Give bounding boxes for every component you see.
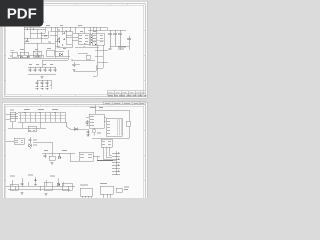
wire cap cluster top [37, 80, 51, 85]
wire feeds to J1 [6, 114, 11, 119]
resistor R5 [126, 121, 130, 126]
wire feeds to J3 [97, 156, 116, 161]
resistor R10 [63, 38, 65, 40]
IC U7 pins [15, 140, 23, 142]
wire vertical bus [54, 27, 56, 58]
connector J3 pads [117, 152, 119, 172]
wire net above U2 [84, 27, 96, 45]
wire rail mid [75, 46, 99, 48]
wire right mid net [72, 45, 108, 75]
title block frame [107, 91, 145, 97]
wire rail upper right [88, 29, 126, 31]
page 2 outer border frame [4, 105, 145, 199]
resistor R9 [63, 32, 65, 34]
wire bottom bus [6, 177, 76, 192]
resistor array rails [18, 113, 66, 123]
capacitor C7 [29, 67, 32, 72]
wire cap bank rail [28, 66, 56, 68]
title block dividers [114, 91, 140, 97]
wire stub [51, 153, 53, 156]
node dot [54, 112, 55, 113]
IC U13 pins [102, 141, 111, 144]
text above U11 [80, 184, 88, 186]
transistor Q1 leads [93, 128, 95, 136]
svg-text:PDF: PDF [7, 6, 37, 23]
diode D2 [27, 56, 29, 58]
relay K3 [46, 50, 54, 56]
wire cap bottoms [110, 36, 129, 50]
wire lower bus [8, 122, 46, 128]
resistor array RN1 verticals [20, 113, 65, 123]
wire stubs left of U5 [86, 117, 89, 125]
wire right drop [42, 50, 68, 67]
IC U3 mid divider [92, 39, 104, 41]
IC U11 pin drops [82, 196, 91, 198]
capacitor C13 [73, 62, 76, 67]
connector J3 pins [112, 153, 120, 174]
wire stubs from top rail [93, 27, 107, 31]
wire bus bundle [97, 160, 113, 162]
IC U8 [79, 152, 93, 161]
capacitor C2 [35, 55, 40, 57]
wire row bottom of mesh [18, 55, 43, 58]
IC U8 pins [80, 154, 92, 157]
net label text [118, 47, 126, 49]
label J1 [10, 109, 14, 111]
wire connecting path [33, 142, 75, 153]
wire mid cluster rail [42, 153, 79, 161]
text labels bottom row [10, 175, 55, 176]
page 2 header strip [103, 102, 145, 105]
wire drops from U12 [103, 194, 110, 198]
IC U6 internal [117, 119, 121, 135]
capacitor C16 [44, 153, 47, 158]
label text above array [24, 109, 58, 111]
page 1 inner border frame [6, 5, 144, 95]
wire bottom rail [92, 138, 129, 140]
resistor R4 [86, 55, 90, 59]
IC U13 [101, 139, 112, 147]
relay K2 [20, 52, 28, 57]
PDF badge [0, 0, 44, 27]
ground [45, 193, 48, 195]
capacitor C19 [87, 129, 90, 134]
resistor R2 [32, 28, 34, 30]
capacitor C10 [44, 67, 47, 72]
switch S1 [33, 51, 41, 57]
text labels [90, 107, 103, 109]
wire right drop [104, 117, 129, 139]
IC U6 [106, 118, 122, 136]
text above U12 [100, 183, 107, 185]
diode D1 [20, 56, 22, 58]
transformer T1 labels [10, 50, 14, 52]
resistor R11 [50, 85, 52, 90]
resistor array body marks [19, 116, 65, 119]
IC U2 [78, 33, 89, 44]
ground [51, 162, 54, 164]
connector J3 spine [115, 151, 117, 175]
capacitor C3 [108, 30, 112, 46]
resistor R1 [26, 28, 28, 30]
title block text [109, 91, 145, 93]
wire lower-left bus [8, 57, 68, 59]
IC U4 [28, 126, 36, 132]
connector J2 [12, 52, 17, 57]
IC U10 [44, 182, 52, 190]
diode D3 [59, 53, 62, 56]
IC U2 pins [79, 35, 88, 41]
node dot [69, 30, 70, 31]
capacitor C11 [49, 67, 52, 72]
wire branches off bus [50, 31, 70, 56]
ground [41, 76, 44, 78]
diode D5 [58, 153, 61, 159]
node junction dots [83, 46, 84, 47]
title block page1 [107, 91, 147, 97]
wire left chain [29, 142, 31, 149]
IC U6 pins [107, 121, 110, 133]
wire mesh upper-left [24, 27, 51, 47]
wire diode feed [66, 122, 88, 136]
wire horizontals upper-left [24, 29, 55, 43]
node dot specks [57, 40, 97, 45]
header strip dividers [112, 102, 139, 105]
wire ground rail [28, 73, 56, 75]
capacitor C23 [46, 80, 49, 90]
node dots on rail [24, 112, 25, 113]
text row [97, 132, 101, 134]
IC U11 [80, 188, 92, 196]
text labels [44, 150, 67, 152]
IC U5 pins [90, 116, 94, 125]
capacitor C9 [39, 67, 42, 72]
capacitor C6 [127, 36, 131, 46]
page 1 outer border frame [4, 4, 145, 97]
capacitor C20 [58, 37, 60, 41]
capacitor C1 [26, 38, 28, 42]
node dot [65, 30, 66, 31]
IC U5 [89, 114, 104, 128]
diode D6 [57, 183, 60, 186]
diode D4 [74, 128, 77, 131]
node dot [71, 59, 72, 60]
wire stub left [93, 70, 97, 76]
capacitor C14 [109, 46, 112, 49]
transistor Q1 [92, 129, 96, 133]
ground [87, 135, 90, 137]
switch S1 cross [33, 51, 41, 57]
diode D7 [29, 144, 32, 147]
IC U4 pins [29, 128, 35, 130]
capacitor C21 [36, 80, 39, 90]
ground [73, 69, 76, 71]
ground [21, 192, 24, 194]
title block dense bottom text [108, 95, 147, 97]
connector J1 [10, 112, 16, 121]
relay K1 box [24, 43, 37, 55]
wire from mesh right [73, 27, 84, 37]
capacitor C8 [34, 67, 37, 72]
text labels chain [33, 140, 37, 145]
header strip text [105, 102, 144, 104]
IC U9 [10, 184, 18, 190]
node dot [39, 112, 40, 113]
wire U8 to bundle [93, 156, 97, 160]
IC U7 [14, 138, 24, 144]
wire verticals into bundle [103, 147, 112, 159]
resistor R3 [40, 32, 42, 34]
capacitor C4 [113, 30, 117, 46]
wire mesh center [57, 27, 78, 47]
wire left feed [6, 140, 15, 142]
connector J1 pins [10, 114, 18, 119]
page 2 sheet [2, 102, 147, 198]
text right of R8 [124, 187, 129, 190]
resistor R8 [116, 188, 122, 192]
capacitor C22 [41, 80, 44, 90]
value label texts page1 [25, 26, 97, 49]
IC U12 [100, 186, 113, 194]
reference designator texts page1 [10, 50, 53, 65]
IC U3 [92, 33, 104, 45]
border zone ticks page2 [4, 105, 145, 181]
IC U3 pins [93, 35, 103, 41]
resistor R6 [49, 156, 55, 160]
capacitor C15 [86, 120, 89, 125]
capacitor C17 [21, 180, 24, 187]
wire right circuit top [95, 105, 129, 122]
wire top rail [24, 26, 107, 28]
IC U3 left pin dots [91, 35, 92, 43]
page 2 inner border frame [6, 106, 144, 198]
relay K4 [62, 183, 72, 190]
capacitor C18 [29, 137, 32, 142]
capacitor C5 [118, 30, 122, 46]
resistor R7 [34, 179, 37, 184]
page 1 sheet [2, 1, 147, 98]
capacitor C12 [54, 67, 57, 72]
border zone ticks page1 [4, 4, 145, 97]
